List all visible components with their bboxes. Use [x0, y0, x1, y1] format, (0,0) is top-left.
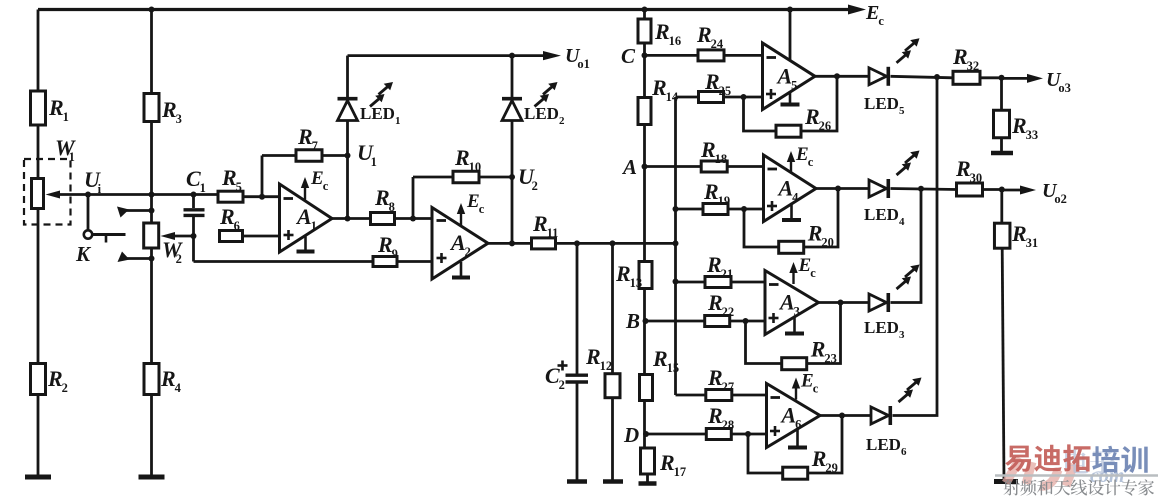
svg-text:o1: o1 [577, 57, 590, 71]
capacitor C1 [184, 166, 206, 262]
svg-text:17: 17 [674, 465, 687, 479]
svg-text:c: c [813, 382, 819, 396]
wire R3 column [150, 10, 153, 478]
wire A4 minus input [645, 165, 764, 168]
svg-text:2: 2 [559, 378, 565, 392]
svg-text:E: E [798, 255, 812, 276]
resistor R24 [696, 22, 724, 61]
svg-text:R: R [703, 179, 719, 204]
svg-text:A: A [778, 290, 795, 315]
svg-text:o3: o3 [1058, 81, 1071, 95]
feedback R29 [748, 416, 842, 480]
svg-text:LED: LED [360, 104, 395, 123]
svg-text:A: A [295, 204, 312, 229]
svg-text:R: R [454, 145, 470, 170]
junction LED2 rail [509, 53, 515, 59]
wire LED1 to Uo1 rail [348, 56, 547, 99]
wire A2 out [488, 242, 532, 245]
junction LED4-LED3 column [918, 186, 924, 192]
wire LED4 row to R30 [891, 189, 958, 190]
resistor R3 [144, 94, 182, 127]
junction A5 feedback [834, 73, 840, 79]
svg-text:R: R [804, 104, 820, 129]
junction R7-U1 column [345, 153, 351, 159]
svg-text:31: 31 [1026, 236, 1039, 250]
label Uo3 [1046, 69, 1071, 95]
svg-text:R: R [654, 19, 670, 44]
svg-text:25: 25 [719, 84, 732, 98]
label U2 [518, 164, 538, 193]
resistor R31 [994, 190, 1038, 251]
A1 supply arrow Ec [301, 168, 329, 200]
resistor R18 [700, 137, 727, 172]
feedback R23 [746, 303, 841, 370]
A6 supply arrow Ec [792, 371, 819, 400]
svg-text:R: R [161, 97, 177, 122]
node A [621, 155, 648, 179]
terminal Ec arrow [840, 5, 866, 15]
resistor R15 [640, 346, 680, 401]
junction R8-R10 [410, 216, 416, 222]
svg-text:16: 16 [669, 34, 682, 48]
terminal Uo3 arrow [1002, 74, 1044, 83]
svg-text:4: 4 [175, 381, 182, 395]
ground C2 [567, 479, 587, 484]
wire U1 column [346, 121, 349, 219]
wire A1 out [332, 217, 371, 220]
svg-text:13: 13 [630, 276, 643, 290]
resistor R8 [371, 185, 395, 225]
svg-text:33: 33 [1026, 128, 1039, 142]
wire LED6 to LED5 row [893, 77, 938, 416]
node B [625, 309, 649, 333]
svg-text:2: 2 [532, 179, 538, 193]
svg-text:24: 24 [711, 37, 724, 51]
W2 wiper arrow [161, 232, 194, 240]
wire A3 output [819, 301, 870, 304]
svg-text:c: c [323, 179, 329, 193]
junction C2 tap [574, 240, 580, 246]
svg-text:2: 2 [62, 381, 68, 395]
junction A3 plus feedback [743, 318, 749, 324]
wire U2 column [511, 121, 514, 244]
resistor R14 [638, 75, 679, 125]
LED LED2 [502, 82, 565, 127]
svg-text:R: R [374, 185, 390, 210]
svg-text:2: 2 [176, 252, 182, 266]
svg-text:32: 32 [967, 59, 980, 73]
resistor R4 [144, 364, 182, 396]
feedback R10 [413, 145, 512, 219]
node C1 top [191, 192, 197, 198]
junction top A5 supply [787, 7, 793, 13]
A2 ground [452, 262, 470, 278]
resistor R1 [31, 91, 69, 125]
svg-text:E: E [800, 371, 814, 392]
wire R31 to ground [1002, 248, 1004, 481]
svg-text:R: R [221, 165, 237, 190]
svg-text:R: R [48, 95, 64, 120]
svg-text:1: 1 [63, 110, 69, 124]
wire LED5 row to R32 [891, 76, 954, 78]
wire A5 plus input [676, 96, 763, 99]
svg-text:R: R [811, 446, 827, 471]
svg-text:R: R [297, 124, 313, 149]
svg-text:18: 18 [715, 152, 728, 166]
svg-text:2: 2 [559, 115, 565, 127]
capacitor C2 [545, 243, 588, 481]
svg-text:R: R [707, 365, 723, 390]
junction R3-Ui [149, 192, 155, 198]
resistor R19 [703, 179, 730, 215]
resistor R27 [706, 365, 734, 401]
resistor R6 [219, 204, 243, 242]
wire A5 supply from rail [789, 10, 792, 61]
resistor R21 [705, 252, 733, 288]
svg-text:30: 30 [970, 171, 983, 185]
svg-text:E: E [466, 191, 480, 212]
junction A2out-U2 [509, 240, 515, 246]
resistor R17 [641, 448, 687, 479]
resistor R25 [699, 69, 732, 103]
potentiometer W1 [24, 135, 76, 225]
junction A3 feedback [838, 300, 844, 306]
svg-text:R: R [615, 261, 631, 286]
resistor R11 [532, 211, 559, 249]
svg-text:6: 6 [234, 219, 240, 233]
svg-text:E: E [865, 2, 879, 24]
op-amp A1 [280, 184, 333, 252]
wire R32 to Uo3 [980, 76, 1002, 79]
ground left column [25, 475, 51, 480]
svg-text:1: 1 [371, 155, 377, 169]
svg-text:R: R [707, 403, 723, 428]
node C [621, 44, 648, 68]
op-amp A3 [765, 271, 819, 335]
wire R30 to Uo2 [983, 188, 1002, 191]
svg-text:R: R [652, 346, 668, 371]
svg-text:R: R [704, 69, 720, 94]
svg-text:A: A [776, 63, 793, 88]
svg-text:10: 10 [469, 160, 482, 174]
wire A3 plus input [646, 320, 766, 323]
A4 ground [782, 203, 801, 220]
ground R12 [603, 479, 623, 484]
svg-text:28: 28 [722, 418, 735, 432]
junction C1 wiper [191, 233, 197, 239]
svg-text:R: R [955, 156, 971, 181]
wire LED2 to Uo1 rail [511, 56, 514, 99]
svg-text:A: A [449, 230, 466, 255]
switch lower contact [118, 252, 153, 263]
resistor R9 [373, 232, 398, 267]
wire R5 to A1 minus [243, 195, 280, 198]
svg-text:R: R [1011, 221, 1027, 246]
junction U2-R10 [509, 174, 515, 180]
svg-text:1: 1 [200, 181, 206, 195]
svg-text:27: 27 [722, 380, 735, 394]
svg-text:R: R [696, 22, 712, 47]
svg-text:4: 4 [899, 216, 905, 228]
label Uo1 [565, 45, 590, 71]
wire A5 output [815, 75, 869, 78]
svg-text:R: R [706, 252, 722, 277]
svg-text:R: R [47, 366, 63, 391]
wire R6 to A1 plus [243, 235, 280, 238]
junction upper contact [149, 208, 155, 214]
svg-text:R: R [377, 232, 393, 257]
svg-text:A: A [777, 176, 794, 201]
label U1 [357, 140, 377, 169]
terminal Uo1 arrow [543, 51, 561, 60]
svg-text:26: 26 [819, 119, 832, 133]
svg-text:5: 5 [236, 180, 242, 194]
wire ladder column [643, 10, 646, 449]
label Ec [865, 2, 884, 28]
LED LED1 [338, 82, 401, 127]
wire R9 to A2 plus [397, 260, 432, 263]
svg-text:19: 19 [718, 194, 731, 208]
junction signal R19 [673, 206, 679, 212]
feedback R20 [744, 189, 838, 254]
svg-text:23: 23 [824, 352, 837, 366]
svg-text:5: 5 [791, 78, 797, 92]
svg-text:R: R [952, 44, 968, 69]
svg-text:1: 1 [69, 150, 75, 164]
svg-text:4: 4 [792, 191, 799, 205]
op-amp A6 [767, 384, 821, 448]
wire R8 to A2 minus [395, 217, 433, 220]
resistor R28 [706, 403, 734, 440]
wire C1 to R9 [194, 260, 374, 263]
resistor R22 [705, 290, 734, 327]
switch K [75, 195, 126, 267]
feedback R26 [744, 76, 838, 137]
svg-text:2: 2 [465, 245, 471, 259]
svg-text:c: c [810, 266, 816, 280]
A3 supply arrow Ec [789, 255, 816, 284]
LED LED5 [864, 38, 920, 117]
junction Uo3 [999, 75, 1005, 81]
resistor R2 [31, 364, 68, 396]
svg-text:R: R [532, 211, 548, 236]
junction R7 tap [259, 194, 265, 200]
ground R33 [991, 151, 1013, 156]
A4 supply arrow Ec [787, 144, 814, 173]
svg-text:R: R [700, 137, 716, 162]
svg-text:1: 1 [311, 219, 317, 233]
junction signal input [673, 240, 679, 246]
svg-text:1: 1 [395, 115, 401, 127]
svg-text:i: i [98, 182, 102, 196]
terminal Uo2 arrow [1002, 186, 1036, 195]
resistor R13 [615, 261, 652, 290]
svg-text:o2: o2 [1054, 192, 1067, 206]
A5 ground [781, 91, 800, 104]
wire Ui to R5 [88, 193, 218, 196]
watermark [995, 444, 1158, 495]
junction A1 out U1 [345, 216, 351, 222]
wire A6 minus input [676, 394, 767, 397]
LED LED4 [864, 151, 920, 229]
junction lower contact [149, 256, 155, 262]
op-amp A5 [763, 43, 816, 110]
A1 ground [297, 237, 315, 252]
svg-text:9: 9 [392, 247, 398, 261]
switch upper contact [117, 207, 152, 218]
svg-text:R: R [659, 450, 675, 475]
ground ladder [639, 474, 657, 484]
svg-text:R: R [807, 220, 823, 245]
svg-text:5: 5 [899, 105, 905, 117]
junction top R16 [642, 7, 648, 13]
wire LED3 to LED4 row [891, 189, 922, 303]
junction R12 tap [610, 240, 616, 246]
wire signal column [674, 97, 677, 395]
svg-text:11: 11 [547, 226, 559, 240]
svg-text:22: 22 [722, 305, 735, 319]
potentiometer W2 [144, 223, 183, 266]
label Uo2 [1042, 180, 1067, 206]
wire A6 output [820, 414, 871, 417]
junction A5 plus feedback [741, 94, 747, 100]
svg-text:D: D [623, 423, 639, 447]
junction top R3 [149, 7, 155, 13]
wire A3 minus input [676, 281, 766, 284]
svg-text:3: 3 [176, 112, 182, 126]
svg-text:R: R [219, 204, 235, 229]
svg-text:A: A [621, 155, 637, 179]
junction A4 feedback [835, 186, 841, 192]
A2 supply arrow Ec [457, 191, 485, 225]
svg-text:A: A [780, 403, 797, 428]
resistor R5 [218, 165, 243, 202]
svg-text:c: c [878, 14, 884, 28]
junction A4 plus feedback [741, 206, 747, 212]
svg-text:3: 3 [899, 329, 905, 341]
svg-text:R: R [810, 337, 826, 362]
svg-text:LED: LED [864, 94, 899, 113]
svg-text:LED: LED [864, 318, 899, 337]
svg-text:c: c [808, 155, 814, 169]
svg-text:c: c [479, 202, 485, 216]
ground R31 bottom [994, 479, 1018, 484]
svg-text:R: R [1011, 113, 1027, 138]
svg-text:E: E [310, 168, 324, 189]
svg-text:LED: LED [864, 205, 899, 224]
svg-text:20: 20 [821, 235, 834, 249]
node Ui [84, 167, 102, 198]
svg-text:B: B [625, 309, 640, 333]
svg-text:29: 29 [825, 461, 838, 475]
resistor R30 [955, 156, 983, 196]
LED LED6 [866, 378, 922, 459]
wire R11 to signal column [556, 242, 676, 245]
wire A4 plus input [676, 208, 764, 211]
junction Uo2 [999, 187, 1005, 193]
svg-text:8: 8 [389, 200, 395, 214]
junction A6 plus feedback [745, 431, 751, 437]
svg-text:7: 7 [312, 139, 318, 153]
svg-text:C: C [621, 44, 636, 68]
resistor R16 [638, 19, 681, 48]
power rail Ec top [38, 8, 852, 11]
svg-text:R: R [651, 75, 667, 100]
wire R1 column [37, 10, 40, 478]
svg-text:LED: LED [866, 435, 901, 454]
feedback R7 [262, 124, 348, 197]
W1 wiper arrow [46, 191, 89, 199]
wire A5 minus input [645, 54, 763, 57]
op-amp A4 [764, 155, 817, 222]
svg-text:R: R [160, 366, 176, 391]
A3 ground [785, 316, 804, 334]
svg-text:K: K [75, 242, 92, 266]
svg-text:R: R [707, 290, 723, 315]
resistor R12 [585, 243, 620, 481]
resistor R33 [994, 78, 1039, 152]
wire A4 output [816, 187, 869, 190]
resistor R32 [952, 44, 980, 84]
svg-text:21: 21 [721, 267, 734, 281]
junction signal R21 [673, 279, 679, 285]
op-amp A2 [432, 208, 488, 280]
junction LED5-LED6 column [934, 74, 940, 80]
svg-text:15: 15 [667, 361, 680, 375]
svg-text:E: E [795, 144, 809, 165]
svg-text:6: 6 [901, 446, 907, 458]
wire A6 plus input [646, 433, 767, 436]
svg-text:LED: LED [524, 104, 559, 123]
svg-text:12: 12 [600, 359, 613, 373]
svg-text:R: R [585, 344, 601, 369]
ground R4 column [139, 475, 165, 480]
A6 ground [788, 428, 807, 448]
node D [623, 423, 649, 447]
LED LED3 [864, 265, 920, 342]
junction A6 feedback [839, 413, 845, 419]
